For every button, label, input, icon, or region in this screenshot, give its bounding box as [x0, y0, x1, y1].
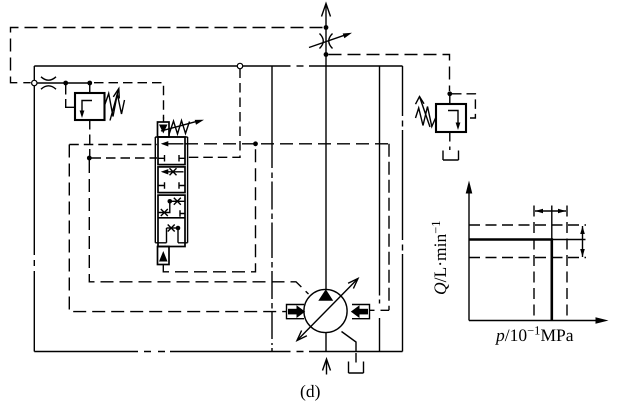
enclosure right border	[402, 66, 404, 352]
valve V2 mid border	[158, 217, 185, 219]
relief valve R1 adjustment arrow	[110, 89, 119, 121]
relief R2 drain to tank	[449, 132, 451, 150]
valve V1 side rails	[155, 137, 187, 243]
pilot line y=83 with orifice	[37, 82, 92, 84]
graph dashed horizontals	[469, 225, 586, 258]
left stroke actuator	[287, 305, 306, 319]
pilot line from P2 to relief R2	[329, 55, 450, 92]
valve V1 top pilot stub	[163, 118, 165, 123]
relief valve R2 internal flow arrow	[448, 111, 460, 131]
relief valve R1 body	[75, 93, 105, 120]
valve V1 spring	[169, 121, 190, 135]
svg-text:(d): (d)	[300, 381, 321, 401]
internal solid line x=379	[379, 66, 381, 352]
graph Q-p curve	[469, 240, 552, 321]
valve V1 box A	[158, 137, 185, 165]
valve V2 body	[158, 195, 185, 246]
case drain stub	[355, 353, 357, 366]
outlet arrow	[322, 4, 331, 17]
pilot line alpha (left)	[69, 144, 157, 146]
valve V1 box B blocked ports	[158, 182, 185, 189]
relief valve R2 spring	[416, 107, 437, 127]
pump case drain	[342, 332, 357, 352]
curve extension thin lines	[552, 206, 586, 240]
enclosure left border	[33, 66, 35, 352]
flow range arrow	[580, 226, 585, 257]
valve V1 pilot cap	[158, 122, 170, 137]
relief valve R2 body	[436, 104, 466, 132]
enclosure bottom border	[34, 351, 402, 353]
node E (dot above relief R2)	[447, 91, 452, 96]
graph Y axis	[466, 181, 473, 321]
node A (dot to relief pilot)	[63, 81, 68, 86]
pressure range arrow	[535, 209, 566, 214]
right stroke actuator	[351, 305, 370, 319]
valve V1 box B throttled arrow	[161, 168, 184, 175]
valve V1 box B	[158, 167, 185, 193]
port node on enclosure (open circle)	[32, 80, 37, 85]
valve V2 drain loop to node D	[163, 146, 255, 272]
tank T1	[349, 362, 364, 374]
pilot branch to valve V1 top	[94, 83, 164, 119]
valve V2 upper blocked port	[180, 210, 185, 217]
pilot loop alpha to left actuator	[69, 145, 286, 312]
valve V1 box A flow arrow	[161, 141, 184, 146]
pilot loop beta to pump swashplate	[89, 160, 308, 294]
svg-text:p/10−1MPa: p/10−1MPa	[494, 324, 574, 346]
svg-text:Q/L·min−1: Q/L·min−1	[429, 220, 450, 295]
internal chain divider x=272	[271, 66, 273, 352]
port node on main line (open circle)	[237, 63, 242, 68]
valve V2 upper path with throttle	[158, 198, 185, 216]
pump variable displacement arrow	[297, 279, 358, 341]
relief R2 inlet stub	[449, 95, 451, 104]
relief valve R1 internal flow arrow	[80, 101, 92, 119]
relief valve R2 adjustment arrow	[416, 97, 431, 128]
graph X axis	[469, 317, 609, 324]
relief R2 remote pilot loop	[452, 94, 475, 118]
pump suction line	[325, 333, 327, 352]
pilot from node to valve V1 right port	[188, 69, 240, 158]
pump outlet triangle	[318, 289, 333, 301]
pilot line from P1 to left network (top dashed loop)	[11, 28, 323, 83]
valve V1 box A blocked ports	[158, 155, 185, 162]
node C (dot on LS line)	[87, 156, 92, 161]
node B (dot to relief inlet)	[87, 81, 92, 86]
relief valve R1 spring	[105, 94, 125, 117]
suction arrow below enclosure	[323, 359, 331, 375]
pilot line beta to valve V1 left port	[92, 157, 158, 159]
enclosure top border	[34, 65, 402, 67]
fixed orifice O1	[41, 77, 56, 89]
adjustable throttle F1 on outlet line	[309, 33, 352, 49]
valve V1 spring adjustment arrow	[161, 120, 204, 131]
pump P circle	[304, 289, 347, 332]
node P2 (junction dot below throttle)	[324, 52, 329, 57]
node P1 (junction dot above throttle)	[324, 25, 329, 30]
feedback line to right actuator	[388, 144, 390, 310]
tank T2	[443, 151, 459, 161]
relief valve R1 inlet stub	[89, 84, 91, 93]
relief valve R1 drain line to LS net	[89, 120, 91, 156]
pilot line alpha (right) to feedback corner	[185, 143, 389, 145]
valve V2 lower path	[155, 225, 187, 243]
relief valve R1 pilot connection (left side)	[65, 85, 67, 100]
main pressure line (pump outlet vertical)	[325, 4, 327, 290]
valve V2 bottom cap	[158, 247, 170, 265]
graph dashed verticals	[534, 206, 567, 321]
node D (dot on alpha line)	[253, 141, 258, 146]
